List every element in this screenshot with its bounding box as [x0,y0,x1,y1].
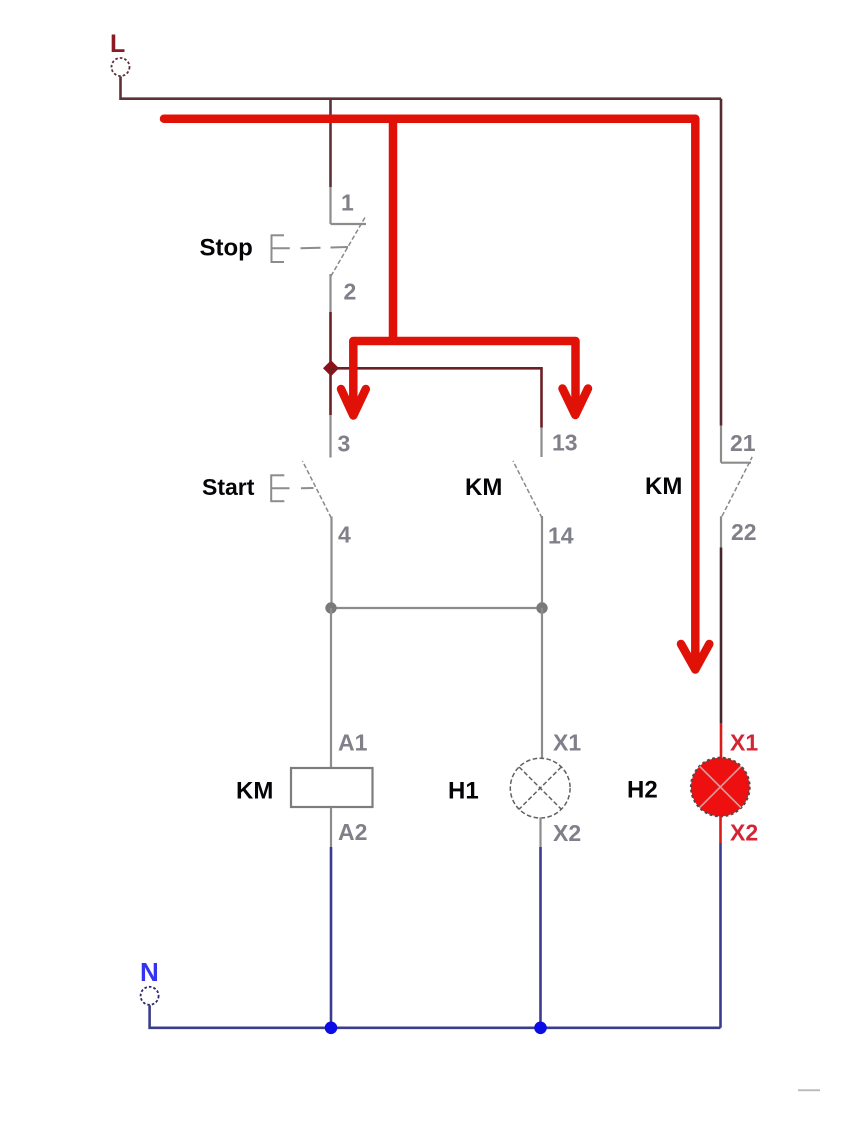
junction node (after Stop) [323,360,339,376]
coil KM [291,768,373,807]
wire energized to H2 X1 (bright red) [720,723,723,758]
junction node N rail right [534,1022,547,1035]
svg-text:N: N [140,957,159,987]
svg-text:X2: X2 [730,820,758,846]
wire junction to KM13 branch [331,368,542,427]
junction node N rail left [325,1022,338,1035]
svg-text:13: 13 [552,430,578,456]
highlight current path: top rail to H2 [164,119,695,662]
lamp H2 (lit) [691,758,750,817]
wire right branch drop (to KM 21) [720,99,723,426]
svg-text:Stop: Stop [200,235,253,262]
highlight arrowhead KM13 branch [563,389,589,416]
Stop actuator [272,234,349,263]
svg-text:X2: X2 [553,820,581,846]
svg-text:1: 1 [341,190,354,216]
wire KM14 to lamp H1 [541,608,543,758]
Start actuator [271,474,313,502]
wire KM22 to H2 (dark) [720,548,723,724]
highlight arrowhead H2 [681,644,709,670]
highlight branch vertical [389,119,398,341]
svg-text:KM: KM [465,474,502,501]
svg-text:Start: Start [202,474,255,500]
svg-text:A2: A2 [338,819,367,845]
KM auxiliary contact 21-22 (NC) [721,426,752,548]
wire H1 to N rail (blue) [539,847,542,1028]
svg-text:A1: A1 [338,730,368,756]
wire A2 to N rail (blue) [330,847,333,1028]
svg-text:H1: H1 [448,778,479,805]
lamp H1 [510,758,570,818]
wire L to top rail [121,77,722,99]
KM auxiliary contact 13-14 (NO) [513,428,542,608]
svg-text:KM: KM [645,473,682,500]
wire parallel connector [331,607,542,609]
svg-text:3: 3 [338,431,351,457]
junction node right (KM14 join) [536,602,547,613]
junction node left (Start/KM join) [325,602,336,613]
wire N rail [150,1005,721,1028]
terminal L [110,30,130,76]
svg-text:L: L [110,30,125,58]
Stop contact S1 (NC) [331,187,367,312]
svg-text:KM: KM [236,778,273,805]
svg-text:X1: X1 [553,730,581,756]
Start contact S2 (NO) [303,415,332,608]
svg-text:H2: H2 [627,777,658,804]
wire H1 X2 down (grey) [539,818,541,848]
wire A2 down (grey) [330,808,332,848]
highlight arrowhead Start branch [341,389,366,416]
svg-text:14: 14 [548,523,574,549]
wire to coil A1 [330,608,332,769]
svg-text:2: 2 [344,279,357,305]
artifact line bottom right [798,1089,820,1091]
svg-text:X1: X1 [730,730,758,756]
terminal N [140,957,159,1005]
svg-text:22: 22 [731,519,757,545]
highlight branch horizontal with legs [353,341,575,409]
wire H2 to N rail (blue) [719,843,722,1028]
wire junction down to Start [329,368,332,415]
wire Stop to junction [329,312,332,368]
wire H2 X2 down (red) [719,816,722,843]
svg-text:4: 4 [338,522,351,548]
wire top rail to Stop [329,99,332,187]
svg-text:21: 21 [730,430,756,456]
